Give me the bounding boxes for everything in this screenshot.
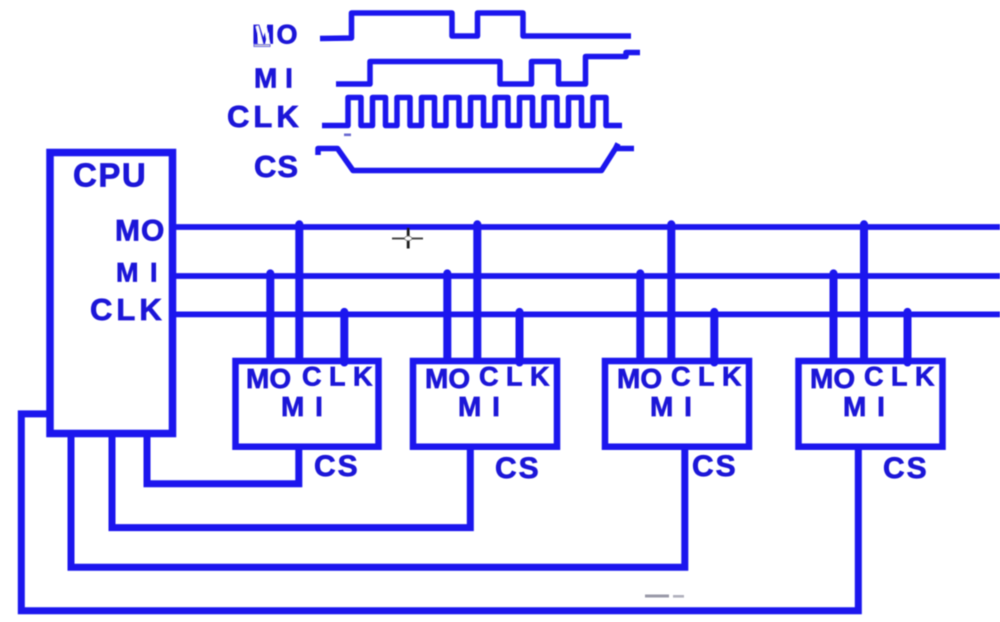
- svg-text:MO: MO: [810, 363, 855, 394]
- svg-text:MO: MO: [425, 363, 470, 394]
- svg-text:CS: CS: [314, 450, 360, 483]
- svg-text:CLK: CLK: [671, 362, 749, 392]
- svg-text:M I: M I: [116, 258, 160, 288]
- svg-text:CLK: CLK: [864, 362, 942, 392]
- svg-text:M I: M I: [843, 391, 886, 422]
- svg-text:CS: CS: [692, 450, 738, 483]
- svg-text:M I: M I: [650, 391, 693, 422]
- svg-text:CS: CS: [883, 452, 929, 485]
- svg-text:CLK: CLK: [227, 99, 303, 134]
- svg-text:M I: M I: [254, 63, 293, 94]
- svg-text:CLK: CLK: [479, 362, 557, 392]
- svg-text:MO: MO: [617, 363, 662, 394]
- svg-text:CLK: CLK: [302, 362, 380, 392]
- svg-text:MO: MO: [246, 363, 291, 394]
- svg-text:CLK: CLK: [90, 292, 166, 327]
- svg-text:CS: CS: [254, 149, 299, 184]
- svg-text:CPU: CPU: [73, 157, 147, 194]
- svg-text:M I: M I: [458, 391, 501, 422]
- svg-text:CS: CS: [495, 452, 541, 485]
- svg-text:M I: M I: [281, 391, 324, 422]
- svg-text:MO: MO: [115, 215, 165, 248]
